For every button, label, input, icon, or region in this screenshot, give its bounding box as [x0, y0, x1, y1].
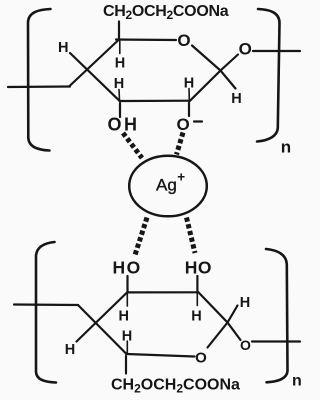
svg-text:O: O — [177, 115, 190, 134]
svg-text:HO: HO — [185, 258, 212, 278]
svg-text:O: O — [177, 31, 190, 50]
svg-text:Ag: Ag — [156, 176, 177, 195]
svg-text:H: H — [114, 76, 124, 92]
svg-text:n: n — [292, 373, 302, 390]
svg-text:+: + — [177, 170, 185, 185]
svg-text:CH2OCH2COONa: CH2OCH2COONa — [111, 377, 240, 396]
svg-text:H: H — [122, 328, 132, 344]
svg-text:H: H — [231, 91, 241, 107]
svg-text:CH2OCH2COONa: CH2OCH2COONa — [103, 3, 229, 22]
svg-text:H: H — [65, 342, 75, 358]
svg-text:H: H — [115, 56, 125, 72]
svg-text:H: H — [240, 295, 250, 311]
svg-text:OH: OH — [108, 114, 140, 134]
svg-text:O: O — [239, 40, 252, 59]
svg-text:H: H — [118, 308, 128, 324]
svg-text:H: H — [191, 308, 201, 324]
svg-text:H: H — [58, 40, 68, 56]
svg-text:O: O — [195, 349, 207, 366]
svg-text:H: H — [184, 76, 194, 92]
svg-text:n: n — [281, 138, 291, 157]
svg-text:HO: HO — [113, 258, 142, 278]
svg-text:O: O — [240, 337, 251, 353]
